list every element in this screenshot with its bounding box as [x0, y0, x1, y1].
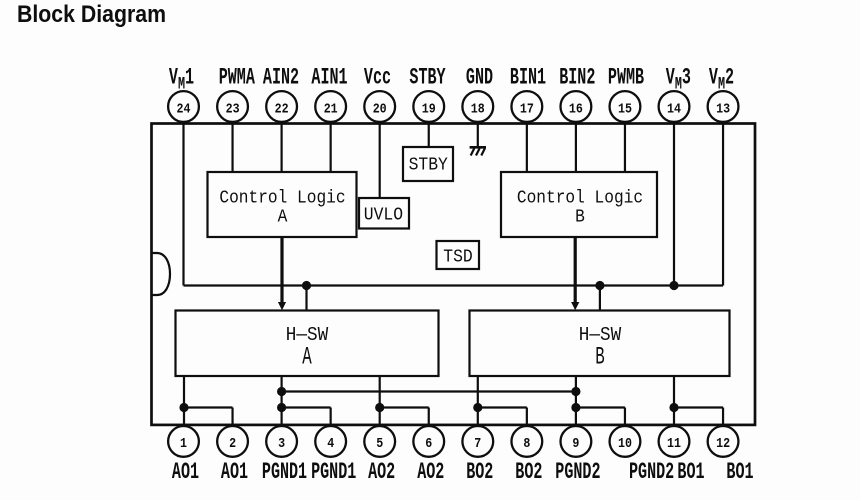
svg-text:24: 24	[177, 101, 191, 117]
svg-text:7: 7	[474, 435, 481, 451]
svg-text:AO1: AO1	[172, 459, 199, 485]
svg-text:3: 3	[278, 435, 285, 451]
svg-text:BO1: BO1	[677, 459, 704, 485]
svg-text:13: 13	[716, 101, 730, 117]
svg-text:10: 10	[618, 435, 632, 451]
svg-text:5: 5	[376, 435, 383, 451]
svg-text:BO1: BO1	[726, 459, 753, 485]
svg-text:8: 8	[523, 435, 530, 451]
svg-text:A: A	[302, 344, 312, 372]
svg-text:AIN1: AIN1	[311, 65, 347, 91]
svg-text:STBY: STBY	[409, 65, 445, 91]
svg-text:12: 12	[716, 435, 730, 451]
svg-text:2: 2	[229, 435, 236, 451]
svg-text:H—SW: H—SW	[579, 324, 622, 346]
svg-text:PWMA: PWMA	[219, 65, 255, 91]
svg-text:AIN2: AIN2	[263, 65, 299, 91]
svg-text:9: 9	[572, 435, 579, 451]
svg-text:PGND2: PGND2	[629, 459, 674, 485]
svg-text:14: 14	[667, 101, 681, 117]
svg-text:PWMB: PWMB	[608, 65, 644, 91]
svg-text:GND: GND	[466, 65, 493, 91]
svg-text:19: 19	[422, 101, 436, 117]
svg-text:UVLO: UVLO	[364, 205, 403, 226]
svg-text:21: 21	[324, 101, 338, 117]
svg-text:20: 20	[373, 101, 387, 117]
svg-text:1: 1	[180, 435, 187, 451]
svg-text:TSD: TSD	[443, 247, 472, 268]
svg-text:A: A	[278, 206, 288, 227]
svg-text:23: 23	[226, 101, 240, 117]
svg-text:BIN2: BIN2	[559, 65, 595, 91]
svg-text:BIN1: BIN1	[510, 65, 546, 91]
svg-text:BO2: BO2	[466, 459, 493, 485]
svg-text:PGND1: PGND1	[262, 459, 307, 485]
svg-text:PGND2: PGND2	[555, 459, 600, 485]
svg-text:PGND1: PGND1	[311, 459, 356, 485]
svg-text:B: B	[575, 206, 585, 227]
svg-text:AO2: AO2	[417, 459, 444, 485]
svg-text:17: 17	[520, 101, 534, 117]
svg-text:BO2: BO2	[515, 459, 542, 485]
svg-text:11: 11	[667, 435, 681, 451]
svg-text:16: 16	[569, 101, 583, 117]
svg-text:H—SW: H—SW	[286, 324, 329, 346]
svg-text:6: 6	[425, 435, 432, 451]
svg-text:AO2: AO2	[368, 459, 395, 485]
svg-text:AO1: AO1	[221, 459, 248, 485]
svg-text:Block Diagram: Block Diagram	[17, 1, 166, 28]
svg-text:Vcc: Vcc	[364, 65, 391, 91]
svg-text:18: 18	[471, 101, 485, 117]
svg-text:STBY: STBY	[409, 154, 449, 175]
svg-text:B: B	[595, 344, 604, 372]
svg-text:22: 22	[275, 101, 289, 117]
svg-text:4: 4	[327, 435, 334, 451]
svg-text:15: 15	[618, 101, 632, 117]
